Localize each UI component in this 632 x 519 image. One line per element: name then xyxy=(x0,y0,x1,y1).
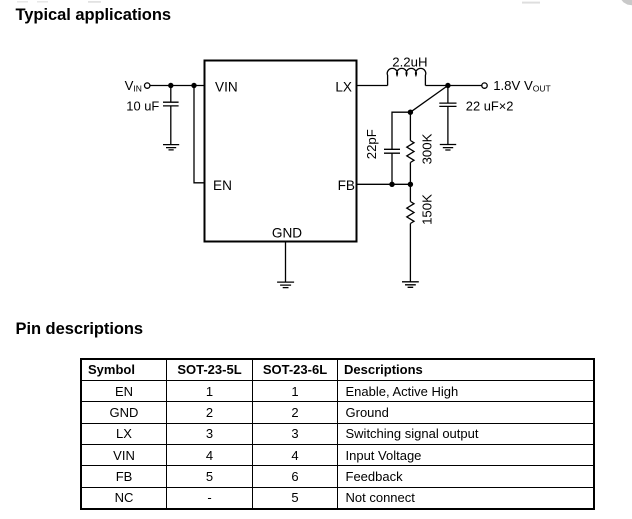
wire EN: from VIN rail down to EN pin xyxy=(194,86,204,183)
wire FB pin xyxy=(357,183,411,185)
wire LX to inductor xyxy=(357,85,388,87)
svg-text:EN: EN xyxy=(213,178,232,193)
junction dot VOUT node xyxy=(445,83,450,88)
svg-text:1.8V VOUT: 1.8V VOUT xyxy=(493,78,551,94)
resistor R1 300K bottom lead xyxy=(409,163,411,185)
svg-text:300K: 300K xyxy=(419,133,434,164)
capacitor C1 bottom lead xyxy=(170,106,172,144)
junction dot FB-22pF xyxy=(389,182,394,187)
svg-text:2.2uH: 2.2uH xyxy=(392,55,427,70)
pin description table xyxy=(80,358,595,510)
junction dot VIN-C1 xyxy=(168,83,173,88)
resistor R1 300K zigzag xyxy=(407,141,414,163)
capacitor C3 bottom lead xyxy=(391,153,393,184)
terminal VIN input xyxy=(145,83,150,88)
ground input xyxy=(163,145,179,150)
wire node to 22pF branch xyxy=(392,112,410,149)
svg-text:LX: LX xyxy=(335,80,352,95)
inductor L1 2.2uH xyxy=(387,68,426,85)
capacitor C1 10uF top lead xyxy=(170,86,172,103)
capacitor C1 plates xyxy=(163,102,179,106)
svg-text:150K: 150K xyxy=(420,194,435,225)
capacitor C2 bottom lead xyxy=(447,107,449,145)
wire feedback diagonal xyxy=(410,86,448,113)
IC U1 body xyxy=(205,61,357,242)
svg-text:10 uF: 10 uF xyxy=(126,98,159,113)
heading: Typical applications xyxy=(16,7,171,24)
junction dot feedback top node xyxy=(408,110,413,115)
resistor R2 150K bottom lead xyxy=(409,224,411,282)
ground output cap xyxy=(440,145,456,151)
capacitor C2 plates xyxy=(439,103,456,106)
wire inductor to VOUT terminal xyxy=(425,85,481,87)
wire VIN terminal to VIN pin xyxy=(150,85,204,87)
junction dot VIN-EN xyxy=(191,83,196,88)
scan artifact smudges xyxy=(522,2,540,4)
svg-text:GND: GND xyxy=(272,226,302,241)
scan artifact corner xyxy=(622,0,632,5)
resistor R2 150K top lead xyxy=(409,184,411,201)
capacitor C3 22pF plates xyxy=(384,149,400,153)
ground below GND pin xyxy=(277,282,294,288)
wire GND pin down xyxy=(285,243,287,282)
svg-text:FB: FB xyxy=(338,178,355,193)
heading: Pin descriptions xyxy=(16,321,144,338)
svg-text:22pF: 22pF xyxy=(364,129,379,159)
svg-text:VIN: VIN xyxy=(125,78,142,94)
svg-text:22 uF×2: 22 uF×2 xyxy=(466,99,514,114)
ground below 150K xyxy=(402,282,419,288)
junction dot FB-divider xyxy=(408,182,413,187)
resistor R1 300K top lead xyxy=(409,112,411,140)
resistor R2 150K zigzag xyxy=(407,202,414,224)
terminal VOUT output xyxy=(482,83,487,88)
capacitor C2 22uF lead xyxy=(447,86,449,104)
svg-text:VIN: VIN xyxy=(215,80,238,95)
